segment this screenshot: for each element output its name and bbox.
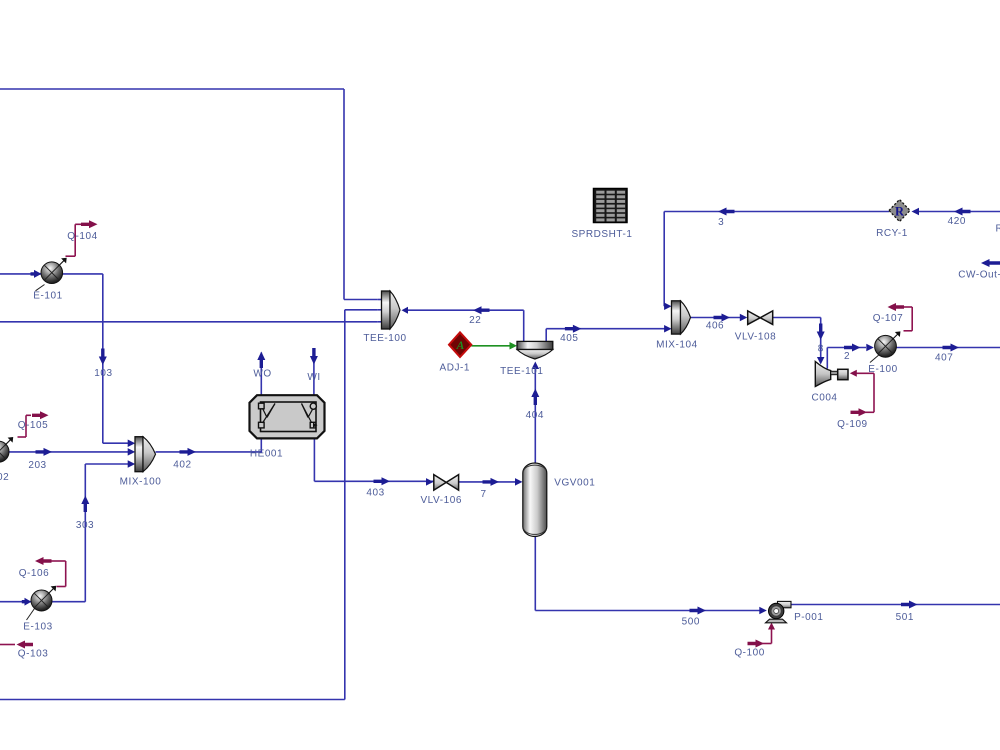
svg-text:3: 3 (718, 217, 724, 228)
svg-text:2: 2 (844, 351, 850, 362)
svg-text:Q-104: Q-104 (67, 231, 98, 242)
svg-text:VGV001: VGV001 (554, 478, 595, 489)
svg-text:WI: WI (307, 372, 320, 383)
svg-text:8: 8 (818, 344, 824, 355)
svg-text:501: 501 (896, 612, 914, 623)
svg-text:405: 405 (560, 333, 578, 344)
svg-text:E-103: E-103 (23, 622, 52, 633)
svg-text:407: 407 (935, 352, 953, 363)
svg-text:P-001: P-001 (794, 612, 823, 623)
svg-text:VLV-108: VLV-108 (735, 331, 776, 342)
svg-text:E-102: E-102 (0, 472, 9, 483)
svg-text:Q-106: Q-106 (19, 568, 50, 579)
svg-text:E-101: E-101 (33, 291, 62, 302)
svg-text:404: 404 (526, 410, 544, 421)
svg-text:402: 402 (173, 460, 191, 471)
svg-text:203: 203 (28, 460, 46, 471)
svg-text:406: 406 (706, 320, 724, 331)
svg-text:CW-Out-: CW-Out- (958, 269, 1000, 280)
svg-text:Q-107: Q-107 (873, 313, 904, 324)
svg-text:WO: WO (253, 369, 271, 380)
svg-text:R: R (895, 205, 905, 219)
svg-text:RCY-1: RCY-1 (876, 228, 908, 239)
svg-text:MIX-104: MIX-104 (656, 339, 698, 350)
svg-text:303: 303 (76, 520, 94, 531)
svg-text:Q-103: Q-103 (18, 649, 49, 660)
svg-text:E-100: E-100 (868, 364, 897, 375)
svg-text:22: 22 (469, 315, 481, 326)
svg-text:103: 103 (94, 368, 112, 379)
svg-text:7: 7 (481, 489, 487, 500)
svg-text:Q-105: Q-105 (18, 420, 49, 431)
svg-text:403: 403 (366, 487, 384, 498)
svg-text:MIX-100: MIX-100 (120, 477, 162, 488)
svg-text:R: R (996, 224, 1000, 235)
svg-text:ADJ-1: ADJ-1 (440, 363, 471, 374)
svg-text:Q-100: Q-100 (734, 648, 765, 659)
svg-text:VLV-106: VLV-106 (420, 495, 461, 506)
svg-text:SPRDSHT-1: SPRDSHT-1 (571, 229, 632, 240)
svg-text:TEE-100: TEE-100 (363, 333, 406, 344)
svg-text:A: A (456, 340, 465, 352)
svg-text:TEE-101: TEE-101 (500, 366, 543, 377)
svg-text:Q-109: Q-109 (837, 419, 868, 430)
svg-text:HE001: HE001 (250, 449, 283, 460)
svg-text:420: 420 (948, 216, 966, 227)
svg-text:C004: C004 (811, 393, 837, 404)
svg-text:500: 500 (682, 617, 700, 628)
